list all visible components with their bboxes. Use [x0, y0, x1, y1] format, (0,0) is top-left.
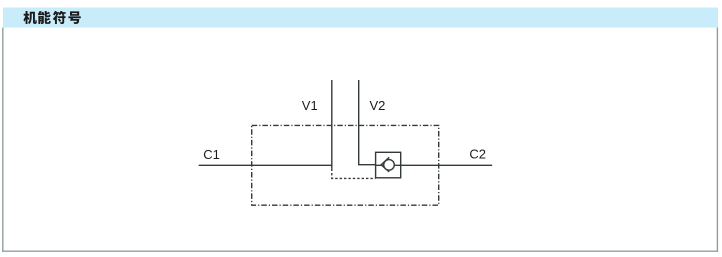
- frame bottom border: [2, 250, 718, 252]
- header bar: [3, 8, 718, 28]
- svg-text:C1: C1: [203, 147, 220, 162]
- svg-text:C2: C2: [469, 147, 486, 162]
- wire V2 (vertical line with elbow to valve): [359, 80, 376, 165]
- frame right border: [716, 28, 718, 252]
- check valve V2 body (square): [376, 152, 401, 178]
- frame left border: [2, 28, 4, 252]
- wire V1 (vertical line): [331, 80, 333, 169]
- check valve seat (chevron): [381, 157, 389, 172]
- wire C1 (horizontal line to V1 junction): [199, 164, 333, 166]
- dashed pilot line from V1 to valve bottom: [332, 169, 376, 179]
- header title 机能符号: [23, 11, 80, 24]
- enclosure (dash-dot boundary box): [252, 125, 439, 205]
- svg-text:V2: V2: [370, 98, 386, 113]
- svg-text:V1: V1: [302, 98, 318, 113]
- wire C2 (through valve body to port C2): [376, 164, 493, 166]
- check valve ball (circle): [384, 160, 395, 171]
